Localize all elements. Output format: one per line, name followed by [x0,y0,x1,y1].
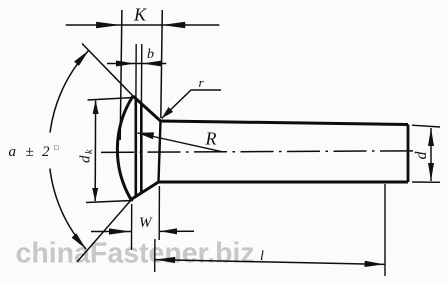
head inner edge 2 [140,104,143,193]
W dimension line left part [91,231,132,233]
svg-text:b: b [147,47,154,62]
shank end edge [407,125,410,183]
W dimension line right part [160,230,194,232]
K right extension line [161,10,163,118]
W right extension line [158,186,160,240]
svg-text:chinaFastener.biz: chinaFastener.biz [16,238,255,270]
R leader arrow [137,132,154,139]
d arrow bottom [428,163,434,181]
dk arrow bottom [92,188,98,202]
dk arrow top [93,100,99,114]
svg-text:l: l [260,249,264,264]
K arrow right [162,22,186,28]
b dimension line [107,63,166,65]
R leader line [138,133,223,152]
dk dimension line [94,101,96,202]
l left extension line [154,239,156,272]
b right extension line [140,44,142,103]
head crown arc [117,96,133,200]
angle arc arrow bottom [72,233,86,249]
b left extension line [135,44,137,99]
head top cone edge [133,96,161,121]
head inner edge 1 [135,100,138,197]
r leader line [162,90,222,119]
d arrow top [428,128,434,146]
b arrow right [142,61,162,67]
d bottom extension line [412,181,440,183]
svg-text:R: R [205,129,217,149]
W arrow right [160,228,177,234]
angle arc arrow top [74,50,89,66]
dk top extension line [88,98,134,101]
l right extension line [384,184,386,276]
dk bottom extension line [86,201,133,203]
r leader arrow [162,107,174,118]
K dimension line [66,24,220,26]
svg-text:W: W [139,215,153,231]
l arrow left [155,257,175,263]
head-shank junction edge [159,121,161,182]
K arrow left [96,22,121,28]
shank bottom edge [159,181,409,184]
K left extension line [120,10,122,140]
head bottom cone edge [131,182,159,200]
W arrow left [109,228,131,234]
l dimension line [155,260,385,265]
axis centerline [101,151,418,153]
l arrow right [365,261,385,267]
d dimension line [430,128,432,181]
svg-text:d: d [413,151,430,160]
angle dimension arc [49,50,89,249]
svg-text:K: K [133,5,147,25]
shank top edge [161,121,409,125]
d top extension line [412,125,440,127]
angle line lower [77,200,132,263]
b arrow left [116,61,135,67]
angle line upper [82,44,133,97]
W left extension line [131,204,133,250]
